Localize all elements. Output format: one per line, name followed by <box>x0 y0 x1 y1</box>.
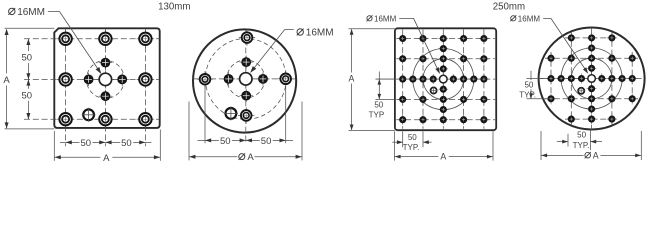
extension P3 50typ lower <box>376 98 395 100</box>
hole C2 mid-row <box>627 74 637 84</box>
leader C1 16mm arrow <box>250 66 256 73</box>
hole C1 cluster left <box>222 72 235 85</box>
dim P3 bA bg <box>438 151 448 161</box>
extension C1 right hole down <box>285 86 287 144</box>
plate P3 outline (250mm square) <box>395 28 496 130</box>
extension P3 bA left <box>394 131 396 160</box>
leader P1 16mm arrow <box>96 67 102 74</box>
svg-text:TYP: TYP <box>369 110 385 119</box>
centerline C2 row1 <box>565 37 618 39</box>
dim P1 50 arrows <box>26 39 30 45</box>
dim C2 50typ arrows <box>529 79 533 85</box>
hole P3 grid <box>418 54 428 64</box>
hole C2 mid-col <box>587 63 597 73</box>
hole C2 mid-col <box>587 33 597 43</box>
centerline C2 horizontal <box>539 78 645 80</box>
hole C1 center 16mm <box>237 70 255 88</box>
dim P1 b50 bg1 <box>80 137 93 148</box>
dim C1 dA arrows <box>189 155 195 159</box>
extension C2 50typ upper <box>527 78 548 80</box>
svg-text:50: 50 <box>261 136 272 147</box>
dim P3 A line <box>351 29 353 130</box>
dim P3 50typ line <box>378 72 380 100</box>
dim C1 b50 bg2 <box>260 135 273 146</box>
centerline P3 row 5 <box>396 119 495 121</box>
dim C1 b50 bg1 <box>219 135 232 146</box>
svg-text:A: A <box>3 75 10 86</box>
centerline P3 col 1 <box>402 30 404 129</box>
dim P3 b50 left line <box>392 141 402 143</box>
centerline C1 vertical <box>245 30 247 143</box>
hole C2 mid-row <box>546 74 556 84</box>
plate P1 outline (130mm square) <box>54 28 159 128</box>
mark P3 cross-circle <box>430 87 438 95</box>
hole P1 grid <box>137 30 155 48</box>
centerline C1 horizontal <box>193 78 297 80</box>
centerline P1 col 2 <box>104 29 106 147</box>
hole P1 grid <box>57 110 75 128</box>
hole P1 grid <box>97 110 115 128</box>
hole P1 cluster bottom <box>99 90 112 103</box>
label C2 50typ 50 bg <box>524 80 535 90</box>
svg-text:16MM: 16MM <box>17 7 45 18</box>
label P1 diameter symbol <box>9 8 15 14</box>
hole P3 grid <box>418 74 428 84</box>
hole C1 cluster right <box>256 72 269 85</box>
dim C1 b50 arrows <box>205 138 211 142</box>
dim P1 b50 line <box>60 141 151 143</box>
hole C2 outer <box>566 114 576 124</box>
dim C1 dA bg <box>238 151 255 162</box>
centerline P1 row 3 <box>24 118 159 120</box>
hole P1 cluster top <box>99 56 112 69</box>
extension C1 dA right <box>301 102 303 161</box>
dim P3 50typ arrows <box>378 79 382 85</box>
label C1 dA symbol <box>239 154 245 160</box>
dim P1 bA line <box>54 156 160 158</box>
dim C2 dA arrows <box>541 154 547 158</box>
bolt circle P3 50mm <box>423 59 464 100</box>
hole C2 ring <box>546 94 556 104</box>
svg-text:50: 50 <box>81 138 92 149</box>
centerline C2 col5 <box>631 52 633 105</box>
hole P3 grid <box>418 95 428 105</box>
hole C1 right <box>278 71 294 87</box>
hole P1 grid <box>97 30 115 48</box>
hole P3 grid <box>418 115 428 125</box>
dim C2 b50 left line <box>557 141 568 143</box>
svg-text:TYP.: TYP. <box>403 143 420 152</box>
dim C2 50typ line <box>530 71 532 99</box>
extension C2 dA left <box>540 131 542 160</box>
hole C2 mid-row <box>597 74 607 84</box>
dim C2 dA bg <box>584 150 601 161</box>
dim P3 bA arrows <box>395 155 401 159</box>
hole P3 grid <box>479 95 489 105</box>
hole C2 mid-col <box>587 84 597 94</box>
hole P3 mid-row 25mm <box>428 74 438 84</box>
dim P1 A line <box>6 30 8 129</box>
hole C2 mid-row <box>617 74 627 84</box>
hole C1 bottom <box>238 107 254 123</box>
hole C1 top <box>239 29 255 45</box>
hole P1 grid <box>137 71 155 89</box>
centerline P1 col 1 <box>65 29 67 147</box>
hole P3 grid <box>459 115 469 125</box>
hole P3 grid <box>398 54 408 64</box>
dim P1 50 bg1 <box>21 51 33 63</box>
hole C2 mid-col <box>587 53 597 63</box>
mark C1 cross-circle <box>224 106 238 120</box>
extension P3 50typ upper <box>376 78 395 80</box>
hole P3 grid <box>459 74 469 84</box>
centerline P3 col 4 <box>463 30 465 129</box>
svg-text:50: 50 <box>408 133 417 142</box>
centerline P3 col 3 <box>442 30 444 129</box>
dim P3 b50 arrows <box>397 140 403 144</box>
hole P3 grid <box>459 95 469 105</box>
dim P1 A arrow up <box>5 29 9 35</box>
extension P3 b50 col1 <box>402 131 404 147</box>
hole C2 ring <box>627 53 637 63</box>
extension C2 50typ lower <box>527 98 550 100</box>
hole P1 cluster left <box>82 73 95 86</box>
dim P1 bA arrows <box>55 155 61 159</box>
hole C2 outer <box>607 114 617 124</box>
dim P3 A arrows <box>350 29 354 35</box>
leader C2 16mm line <box>543 19 587 73</box>
svg-text:TYP.: TYP. <box>573 141 590 150</box>
leader C1 16mm line <box>251 30 294 72</box>
dim C1 dA line <box>189 156 302 158</box>
hole C2 mid-col <box>587 94 597 104</box>
svg-text:250mm: 250mm <box>493 2 525 13</box>
hole C2 mid-row <box>556 74 566 84</box>
svg-text:16MM: 16MM <box>518 14 541 23</box>
leader P1 16mm line <box>48 12 101 73</box>
extension P3 b50 col2 <box>422 131 424 147</box>
hole C2 mid-row <box>577 74 587 84</box>
hole C1 cluster top <box>240 56 253 69</box>
hole P3 center 16mm <box>438 73 450 85</box>
centerline C2 vertical <box>591 28 593 131</box>
hole C2 outer <box>607 33 617 43</box>
hole P3 mid-col 25mm <box>438 84 448 94</box>
hole C2 mid-row <box>566 74 576 84</box>
hole P3 mid-row 25mm <box>469 74 479 84</box>
dim C1 b50 line <box>198 139 294 141</box>
hole P1 grid <box>137 110 155 128</box>
hole P3 grid <box>479 54 489 64</box>
hole C2 mid-col <box>587 104 597 114</box>
centerline C2 row5 <box>565 118 618 120</box>
label P3 diameter symbol <box>367 16 372 21</box>
leader P3 16mm line <box>399 18 439 72</box>
centerline P3 row 4 <box>396 98 495 100</box>
extension C1 dA left <box>188 102 190 161</box>
svg-text:A: A <box>247 152 254 163</box>
hole P1 cluster right <box>116 73 129 86</box>
bolt circle C1 cluster (dashed) <box>227 60 265 98</box>
dim C2 b50 arrows <box>562 140 568 144</box>
centerline C2 row2 <box>545 57 638 59</box>
svg-text:50: 50 <box>577 131 586 140</box>
hole P3 grid <box>398 115 408 125</box>
plate C1 outline (round 130mm) <box>193 29 296 132</box>
hole C2 ring <box>546 53 556 63</box>
hole P3 grid <box>438 34 448 44</box>
centerline C2 col1 <box>550 52 552 105</box>
hole P3 grid <box>479 74 489 84</box>
svg-text:50: 50 <box>524 81 533 90</box>
hole C1 left <box>197 71 213 87</box>
bolt circle C2 75mm <box>561 48 622 109</box>
svg-text:A: A <box>593 151 599 161</box>
svg-text:130mm: 130mm <box>158 2 190 13</box>
extension P3 bA right <box>492 131 494 160</box>
dim P3 A bg <box>347 73 357 84</box>
svg-text:50: 50 <box>121 138 132 149</box>
hole C2 mid-row <box>607 74 617 84</box>
hole P3 grid <box>479 34 489 44</box>
hole P3 mid-col 25mm <box>438 105 448 115</box>
hole C2 mid-col <box>587 43 597 53</box>
hole P3 grid <box>398 34 408 44</box>
hole P1 grid <box>57 71 75 89</box>
hole P3 grid <box>438 54 448 64</box>
mark P1 cross-circle <box>82 108 96 122</box>
mark C2 cross-circle <box>577 87 585 95</box>
extension C2 dA right <box>640 131 642 160</box>
dim P1 A bg <box>1 73 11 85</box>
centerline P3 col 2 <box>422 30 424 129</box>
extension C2 b50 right <box>589 130 591 150</box>
centerline C2 row4 <box>545 98 638 100</box>
leader P3 16mm arrow <box>435 67 440 74</box>
label C2 diameter symbol <box>511 16 516 21</box>
svg-text:50: 50 <box>220 136 231 147</box>
centerline P1 row 2 <box>24 78 159 80</box>
extension C2 b50 left <box>567 134 569 147</box>
centerline P1 row 1 <box>24 38 159 40</box>
dim P1 bA bg <box>100 152 112 163</box>
svg-text:16MM: 16MM <box>306 28 334 39</box>
svg-text:A: A <box>440 152 446 162</box>
centerline C2 col4 <box>611 32 613 125</box>
centerline P3 row 2 <box>396 58 495 60</box>
svg-text:50: 50 <box>22 53 33 64</box>
hole P3 grid <box>459 34 469 44</box>
svg-text:50: 50 <box>374 100 383 109</box>
centerline C2 col2 <box>570 32 572 125</box>
centerline P3 row 1 <box>396 38 495 40</box>
hole C2 outer <box>566 33 576 43</box>
bolt circle C1 50mm (dashed) <box>205 39 286 120</box>
hole P3 grid <box>459 54 469 64</box>
svg-text:50: 50 <box>22 90 33 101</box>
hole P3 grid <box>418 34 428 44</box>
hole P3 mid-row 25mm <box>408 74 418 84</box>
dim P1 A arrow down <box>5 122 9 128</box>
svg-text:A: A <box>103 153 110 164</box>
dim P1 50 bg2 <box>21 89 33 101</box>
hole P3 grid <box>398 95 408 105</box>
svg-text:TYP.: TYP. <box>519 91 536 100</box>
dim C2 b50 right line <box>590 141 602 143</box>
centerline P3 col 5 <box>483 30 485 129</box>
extension P1 A left <box>53 131 55 161</box>
extension C1 left hole down <box>204 86 206 144</box>
centerline P3 row 3 <box>396 78 495 80</box>
centerline P3 row3 left ext <box>376 78 397 80</box>
bolt circle P1 (dashed) <box>86 60 124 98</box>
extension P1 top <box>5 27 55 29</box>
dim P1 b50 arrows <box>66 140 72 144</box>
hole C2 ring <box>566 53 576 63</box>
hole C2 ring <box>607 94 617 104</box>
hole P3 mid-col 25mm <box>438 64 448 74</box>
hole C2 ring <box>607 53 617 63</box>
extension P3 top <box>349 28 395 30</box>
hole C2 mid-col <box>587 114 597 124</box>
hole C2 ring <box>566 94 576 104</box>
svg-text:16MM: 16MM <box>374 14 397 23</box>
hole P1 center 16mm <box>96 70 114 88</box>
hole P3 grid <box>438 95 448 105</box>
plate C2 outline (round 250mm) <box>539 28 645 130</box>
svg-text:A: A <box>348 74 354 84</box>
extension P1 bottom <box>5 128 55 130</box>
extension P3 bottom <box>349 130 395 132</box>
dim C2 dA line <box>541 154 641 156</box>
hole P3 mid-col 25mm <box>438 44 448 54</box>
dim P1 50 line <box>27 39 29 119</box>
hole P3 mid-row 25mm <box>449 74 459 84</box>
centerline P1 col 3 <box>144 29 146 147</box>
dim P3 b50 right line <box>423 141 432 143</box>
extension P1 A right <box>159 130 161 161</box>
hole P3 grid <box>398 74 408 84</box>
hole P1 grid <box>57 30 75 48</box>
hole C1 cluster bottom <box>240 89 253 102</box>
hole C2 ring <box>627 94 637 104</box>
hole P3 grid <box>479 115 489 125</box>
dim P1 b50 bg2 <box>120 137 133 148</box>
dim P3 bA line <box>395 156 494 158</box>
bolt circle C2 50mm <box>571 58 612 99</box>
hole P3 grid <box>438 115 448 125</box>
label C1 diameter symbol <box>297 29 303 35</box>
label C2 dA symbol <box>585 152 591 158</box>
leader C2 16mm arrow <box>583 67 588 74</box>
bolt circle P3 75mm <box>413 49 474 110</box>
hole C2 center 16mm <box>586 73 598 85</box>
